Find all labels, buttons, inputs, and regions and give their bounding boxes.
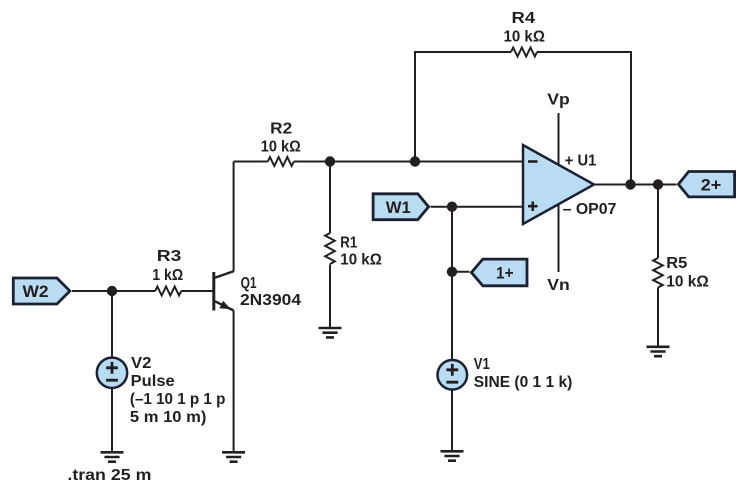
svg-text:1+: 1+ xyxy=(496,263,514,282)
svg-text:10 kΩ: 10 kΩ xyxy=(340,251,382,268)
svg-text:W2: W2 xyxy=(23,282,49,301)
svg-text:SINE (0 1 1 k): SINE (0 1 1 k) xyxy=(474,374,573,391)
svg-text:Vn: Vn xyxy=(547,277,570,294)
svg-text:10 kΩ: 10 kΩ xyxy=(261,139,301,156)
svg-text:10 kΩ: 10 kΩ xyxy=(666,274,709,291)
svg-text:+ U1: + U1 xyxy=(565,153,597,170)
svg-text:W1: W1 xyxy=(386,198,411,217)
svg-text:V1: V1 xyxy=(474,356,490,373)
svg-text:Vp: Vp xyxy=(547,91,570,108)
svg-text:2N3904: 2N3904 xyxy=(240,292,301,309)
svg-text:Pulse: Pulse xyxy=(131,373,175,390)
svg-text:2+: 2+ xyxy=(701,176,722,195)
svg-text:– OP07: – OP07 xyxy=(563,201,617,218)
svg-text:R3: R3 xyxy=(157,248,182,265)
svg-text:.tran 25 m: .tran 25 m xyxy=(67,467,151,484)
svg-text:10 kΩ: 10 kΩ xyxy=(503,28,545,45)
svg-text:R1: R1 xyxy=(340,234,357,251)
svg-text:1 kΩ: 1 kΩ xyxy=(152,267,183,284)
svg-text:5 m 10 m): 5 m 10 m) xyxy=(130,409,207,426)
svg-text:V2: V2 xyxy=(131,355,152,372)
svg-text:R5: R5 xyxy=(666,255,687,272)
svg-text:(–1 10 1 p 1 p: (–1 10 1 p 1 p xyxy=(130,391,226,408)
svg-text:Q1: Q1 xyxy=(241,275,257,292)
svg-text:R2: R2 xyxy=(270,121,292,138)
svg-text:R4: R4 xyxy=(512,10,536,27)
